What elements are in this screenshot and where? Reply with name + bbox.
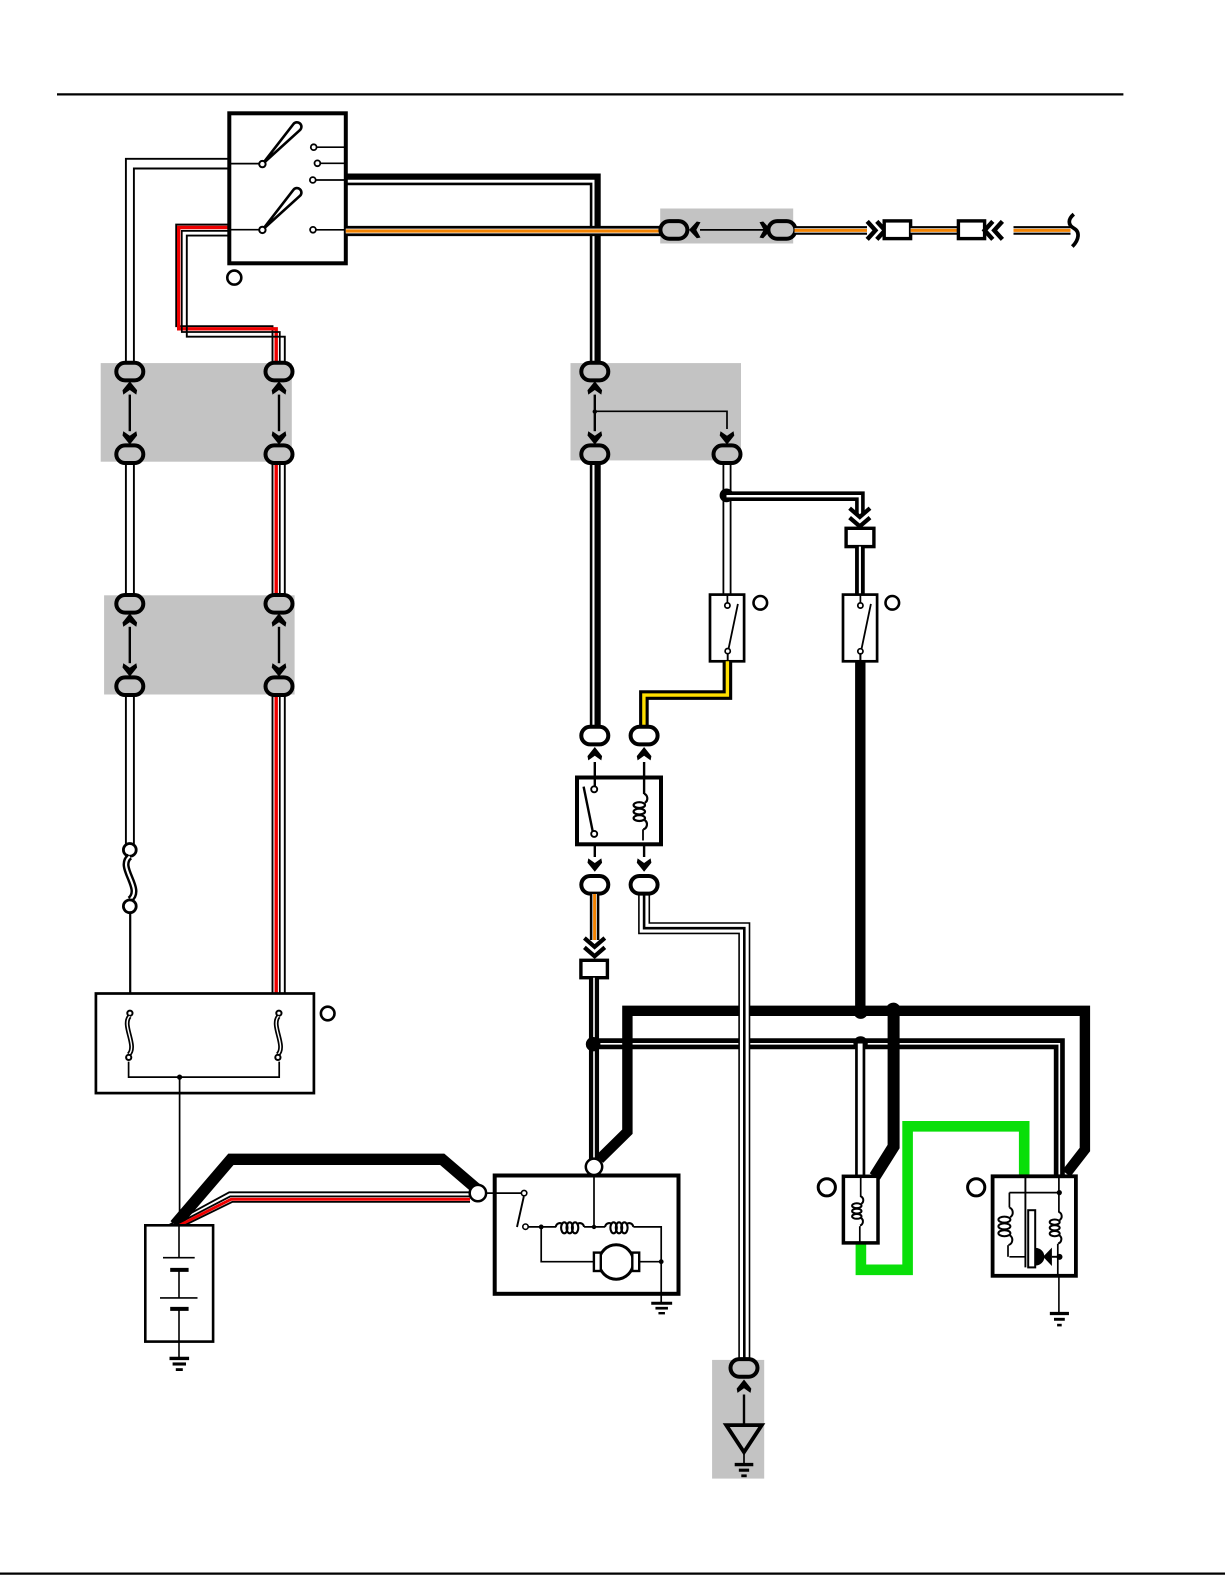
wire (orange) bbox=[911, 226, 959, 235]
switch pin 4 bbox=[310, 227, 316, 233]
connector arrow bbox=[720, 431, 735, 444]
indicator lamp (triangle) bbox=[726, 1425, 762, 1452]
connector arrow bbox=[637, 747, 652, 760]
connector (inline) bbox=[581, 960, 608, 977]
motor brush (left) bbox=[594, 1253, 601, 1271]
relay box bbox=[577, 778, 661, 845]
wire (heavy black to coil box) bbox=[875, 1009, 894, 1177]
fuse 2 terminal bbox=[276, 1011, 281, 1016]
junction bbox=[177, 1075, 182, 1080]
wire (bottom link) bbox=[1009, 1256, 1025, 1258]
junction bbox=[853, 1036, 867, 1050]
connector pair (left block2 col1) bbox=[116, 595, 143, 613]
switch pin 2 bbox=[315, 160, 321, 166]
connector (inline female) bbox=[958, 221, 984, 239]
connector arrow bbox=[689, 222, 701, 239]
battery internal wire bbox=[178, 1225, 180, 1257]
connector arrow bbox=[637, 858, 652, 871]
wire (orange, relay output) bbox=[590, 894, 600, 940]
wire (double white cable, relay to indicator lamp) bbox=[644, 892, 744, 1360]
wire (stub) bbox=[594, 844, 596, 857]
connector chevrons (out) bbox=[867, 221, 875, 239]
light switch box bbox=[229, 113, 345, 263]
wire bbox=[129, 1062, 180, 1078]
wire (red/white bundle, to fuse box) bbox=[272, 692, 274, 1006]
ground (flasher) bbox=[1050, 1312, 1069, 1315]
coil bbox=[861, 1196, 864, 1204]
wiper motor box bbox=[495, 1176, 679, 1294]
switch pin 1 bbox=[311, 144, 317, 150]
ground (battery) bbox=[170, 1357, 190, 1360]
switch lever bbox=[862, 604, 871, 649]
wire (to fuse box) bbox=[129, 913, 131, 1011]
connector (orange wire, left half) bbox=[660, 221, 687, 239]
battery cell plate (long) bbox=[160, 1297, 198, 1299]
connector block (left lower, gray) bbox=[104, 595, 295, 694]
wire (right leg) bbox=[1058, 1176, 1060, 1212]
wire bbox=[639, 1261, 661, 1263]
battery cell plate (short) bbox=[170, 1307, 188, 1311]
connector pair (left block2 col2) bbox=[266, 595, 293, 613]
junction bbox=[886, 1003, 901, 1018]
wire (green, flasher feed) bbox=[861, 1126, 1024, 1270]
label circle (relay coil) bbox=[818, 1179, 835, 1196]
harness break symbol bbox=[1069, 214, 1078, 246]
wire (white pair, connector to stop switch) bbox=[722, 463, 724, 595]
connector (relay pin 3) bbox=[581, 876, 608, 894]
connector (relay pin 1) bbox=[581, 727, 608, 745]
wire (yellow, stop switch to relay) bbox=[644, 661, 728, 727]
wire (red/white bundle, battery to motor) bbox=[169, 1192, 471, 1225]
label circle (light switch) bbox=[227, 271, 241, 285]
junction bbox=[853, 1004, 868, 1019]
connector arrow bbox=[760, 222, 772, 239]
wire (thin black, switch to center connector) bbox=[346, 184, 591, 366]
fuse box bbox=[96, 994, 314, 1094]
label circle (fuse box) bbox=[321, 1007, 335, 1021]
battery cell plate (long) bbox=[163, 1257, 195, 1259]
connector chevrons (down) bbox=[850, 508, 870, 517]
fuse 1 terminal bbox=[127, 1011, 132, 1016]
wire (stub) bbox=[726, 595, 728, 603]
wire (black/white pair to motor) bbox=[589, 978, 599, 1162]
armature plate bbox=[1028, 1210, 1035, 1267]
wire (fuse box to battery) bbox=[179, 1077, 181, 1225]
connector arrow bbox=[588, 747, 603, 760]
stop lamp switch box bbox=[710, 595, 744, 662]
wire (black/white pair, horizontal bus to flasher) bbox=[593, 1044, 1059, 1177]
wire (armature branch) bbox=[541, 1227, 594, 1262]
wire (white, light switch to connector) bbox=[126, 159, 229, 366]
junction bbox=[720, 489, 734, 503]
switch lever 2 bbox=[262, 188, 301, 230]
wire bbox=[633, 1227, 661, 1294]
wire (red/white bundle, light switch to connector) bbox=[176, 225, 272, 368]
switch contact (bottom) bbox=[858, 649, 863, 654]
wire bbox=[528, 1226, 556, 1228]
wire bbox=[486, 1192, 522, 1194]
wire (orange, light switch tail feed) bbox=[346, 226, 661, 236]
fuse 2 element bbox=[276, 1016, 280, 1054]
label circle (dimmer switch) bbox=[886, 596, 900, 610]
connector block (left upper, gray) bbox=[101, 363, 292, 462]
horizontal rule (top) bbox=[57, 93, 1123, 95]
wire bbox=[1024, 1176, 1026, 1267]
connector pair (center block left) bbox=[581, 363, 608, 381]
relay lever bbox=[584, 787, 593, 832]
wire (white pair to dimmer switch) bbox=[855, 547, 865, 595]
flasher unit box bbox=[993, 1176, 1076, 1276]
wire (to ground) bbox=[660, 1294, 662, 1302]
ground (motor) bbox=[651, 1302, 672, 1305]
connector arrow bbox=[737, 1380, 752, 1393]
wire (stub) bbox=[643, 844, 645, 857]
motor brush (right) bbox=[632, 1253, 639, 1271]
wire (white, between connector blocks) bbox=[125, 460, 127, 599]
motor switch contact (top) bbox=[521, 1190, 526, 1195]
wire (orange, to harness break) bbox=[1014, 226, 1071, 235]
diode (contact symbol) bbox=[1036, 1248, 1045, 1266]
wire (white pair to relay coil box) bbox=[855, 1044, 865, 1177]
battery box bbox=[145, 1225, 213, 1341]
wire (switch feed 1) bbox=[229, 163, 259, 165]
fusible link terminal (bottom ring) bbox=[123, 900, 136, 913]
fuse 1 element bbox=[127, 1016, 131, 1054]
field coil 1 bbox=[556, 1223, 563, 1227]
junction bbox=[592, 1225, 596, 1229]
wire (stub) bbox=[859, 595, 861, 603]
switch contact (top) bbox=[858, 603, 863, 608]
relay coil bbox=[644, 794, 647, 803]
wire bbox=[584, 1226, 605, 1228]
connector (inline) bbox=[846, 528, 874, 546]
label circle (flasher) bbox=[968, 1179, 985, 1196]
motor switch lever bbox=[517, 1197, 524, 1228]
connector (center block right) bbox=[714, 445, 741, 463]
switch lever bbox=[729, 604, 738, 649]
switch contact (top) bbox=[725, 603, 730, 608]
wire (thick black, switch to center connector) bbox=[346, 177, 598, 366]
wire bbox=[860, 1176, 862, 1197]
connector block (top right on orange wire, gray) bbox=[660, 209, 793, 244]
wire (black pair below center connector) bbox=[590, 460, 593, 729]
wire (connector link) bbox=[700, 229, 770, 231]
junction bbox=[586, 1037, 600, 1051]
wire (red/white bundle, between connector blocks) bbox=[272, 460, 274, 599]
wire (stub into fuse) bbox=[277, 1005, 279, 1010]
connector (orange wire, right half) bbox=[768, 221, 795, 239]
indicator lamp block (bottom, gray) bbox=[712, 1360, 764, 1479]
ground (indicator lamp) bbox=[735, 1463, 754, 1466]
wire bbox=[743, 1452, 745, 1463]
connector chevrons (in) bbox=[994, 221, 1002, 239]
connector (indicator lamp) bbox=[731, 1359, 758, 1377]
fusible link terminal (top ring) bbox=[123, 844, 136, 857]
fusible link element bbox=[126, 857, 134, 900]
motor armature bbox=[599, 1245, 633, 1279]
relay contact (bottom) bbox=[591, 831, 597, 837]
battery cell plate (short) bbox=[170, 1268, 188, 1272]
wire (stub) bbox=[594, 762, 596, 786]
wire (stub) bbox=[859, 654, 861, 661]
relay contact (top) bbox=[591, 786, 597, 792]
junction bbox=[586, 1037, 600, 1051]
switch pin 3 bbox=[310, 177, 316, 183]
wire (heavy black bus) bbox=[600, 1011, 1085, 1174]
junction bbox=[1057, 1190, 1062, 1195]
connector arrow bbox=[588, 858, 603, 871]
switch pivot 2 bbox=[259, 227, 265, 233]
battery cable (heavy black) bbox=[175, 1159, 481, 1225]
label circle (stop lamp switch) bbox=[754, 596, 768, 610]
connector chevrons (down) bbox=[584, 938, 604, 947]
field coil 2 bbox=[605, 1223, 612, 1227]
wire (stub) bbox=[727, 654, 729, 662]
horizontal rule (bottom) bbox=[0, 1572, 1225, 1574]
flasher coil (right) bbox=[1059, 1212, 1062, 1220]
wire bbox=[743, 1395, 745, 1427]
wire (motor feed) bbox=[593, 1175, 595, 1227]
relay coil box bbox=[843, 1176, 878, 1243]
flasher coil (left) bbox=[1008, 1193, 1010, 1208]
connector pair (left block1 col1) bbox=[116, 363, 143, 381]
connector block (center, gray) bbox=[571, 363, 742, 460]
junction bbox=[659, 1259, 664, 1264]
wire (stub) bbox=[643, 762, 645, 794]
terminal (motor top) bbox=[586, 1159, 602, 1175]
wire (orange) bbox=[795, 226, 868, 235]
connector (relay pin 2) bbox=[631, 727, 658, 745]
wire (white, lower segment) bbox=[125, 692, 127, 845]
wire (branch to right connector) bbox=[595, 411, 727, 429]
fuse 1 terminal (bottom) bbox=[126, 1055, 131, 1060]
junction (branch) bbox=[593, 409, 597, 413]
switch contact (bottom) bbox=[725, 649, 730, 654]
switch pivot 1 bbox=[259, 161, 265, 167]
wire (heavy black from dimmer switch) bbox=[855, 661, 865, 1011]
connector pair (left block1 col2) bbox=[266, 363, 293, 381]
junction bbox=[1057, 1254, 1063, 1260]
terminal (motor left) bbox=[470, 1185, 486, 1201]
wire (switch feed 2) bbox=[229, 229, 259, 231]
wire bbox=[180, 1062, 280, 1078]
dimmer switch box bbox=[843, 595, 877, 662]
motor switch contact (bottom) bbox=[523, 1224, 528, 1229]
connector (inline male) bbox=[884, 221, 910, 239]
junction bbox=[539, 1225, 544, 1230]
wire (to ground) bbox=[1058, 1276, 1060, 1312]
wire (top link) bbox=[1009, 1192, 1059, 1194]
connector (relay pin 4) bbox=[631, 876, 658, 894]
wire (white pair, junction to dimmer switch) bbox=[727, 496, 860, 515]
switch lever 1 bbox=[262, 122, 301, 164]
fuse 2 terminal (bottom) bbox=[275, 1055, 280, 1060]
